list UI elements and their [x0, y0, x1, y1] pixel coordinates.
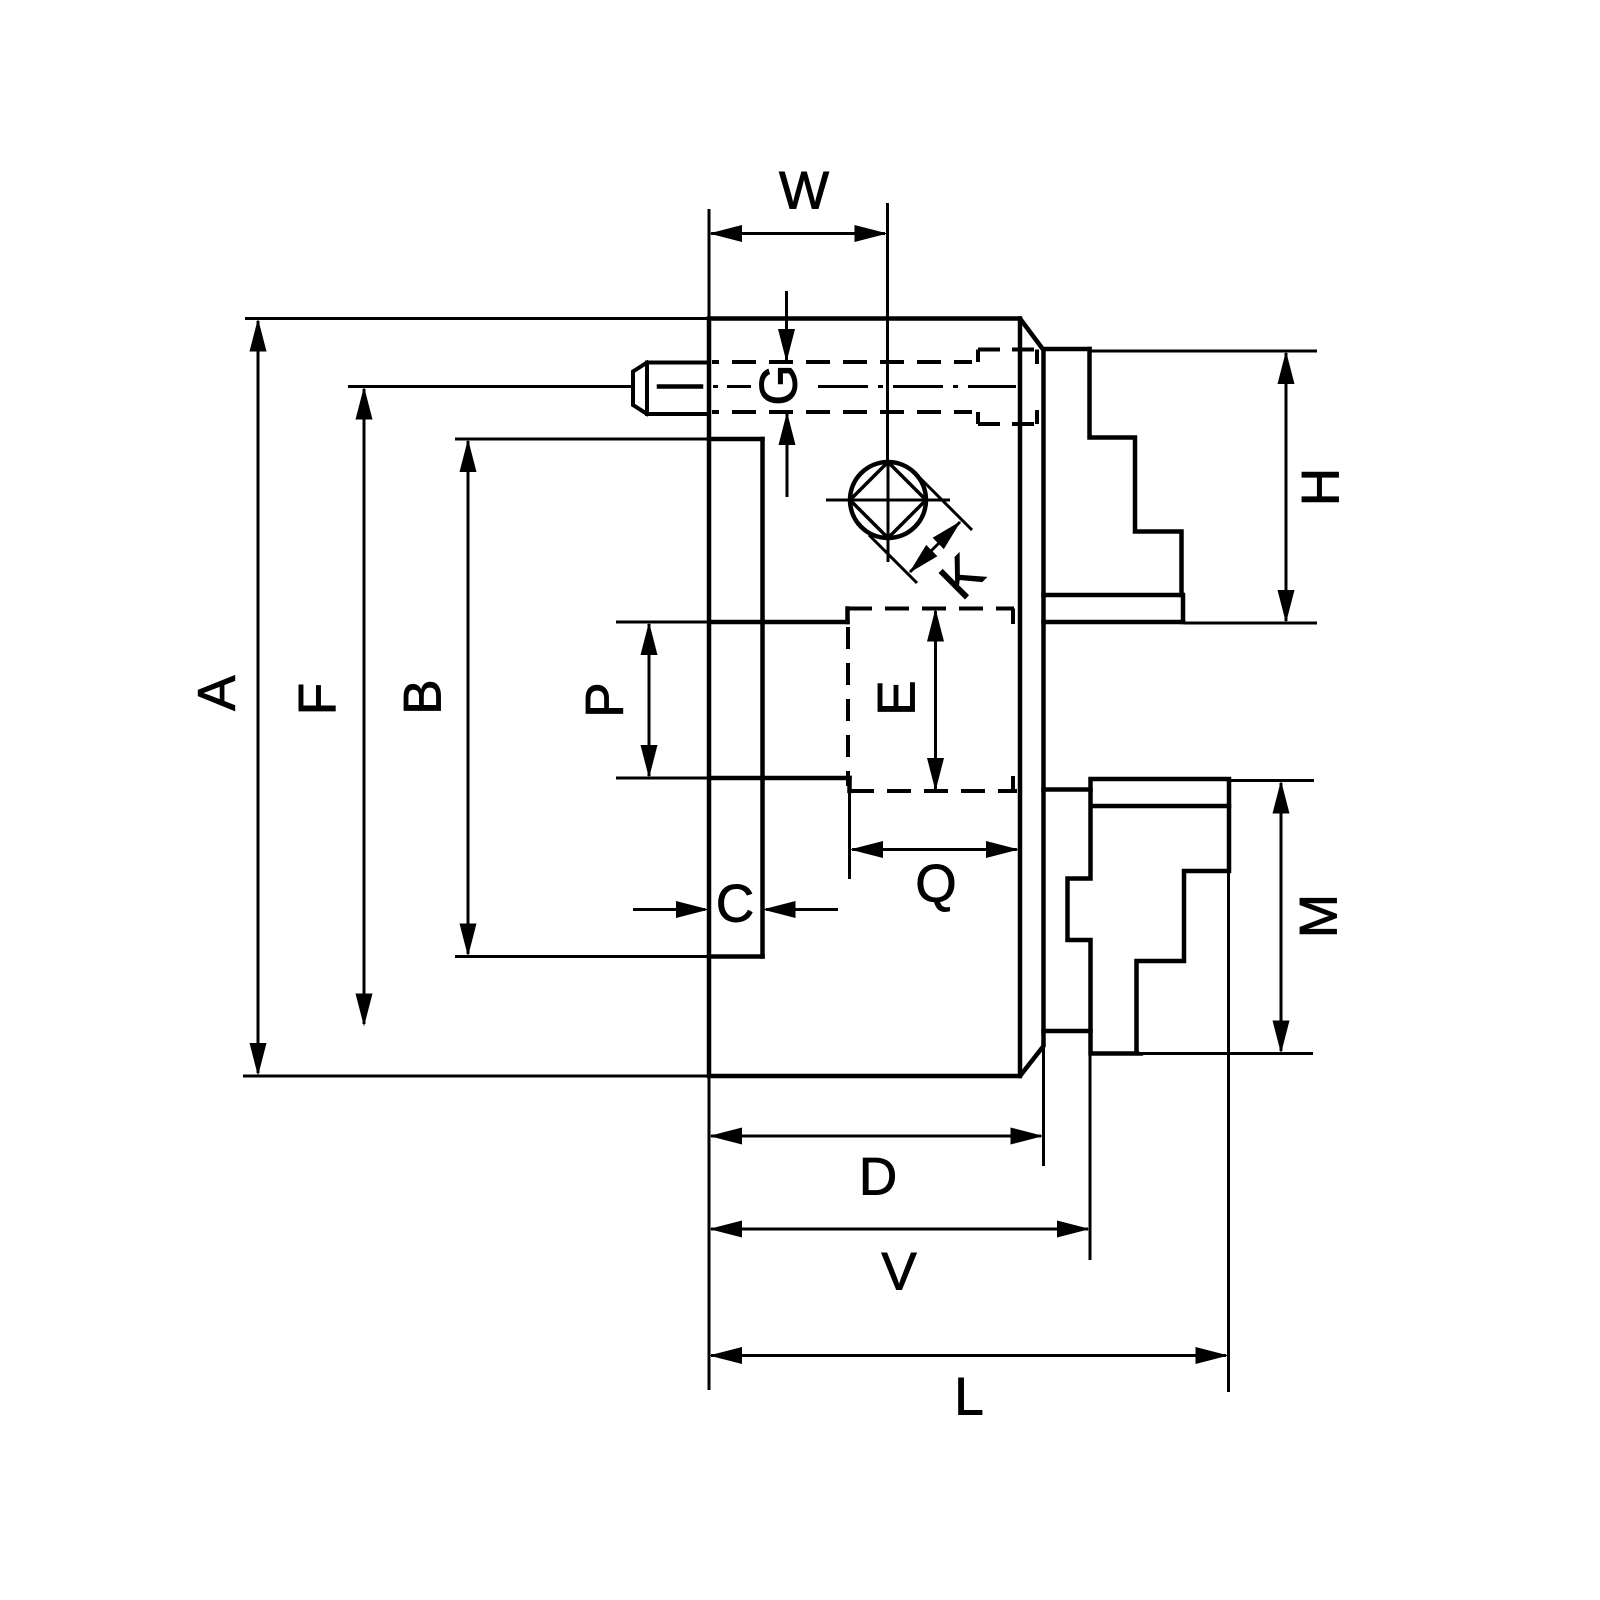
- label V: [881, 1243, 917, 1302]
- svg-text:E: E: [868, 680, 927, 715]
- centre bore back portion (diameter P): [710, 609, 850, 792]
- label F: [289, 683, 348, 715]
- label A: [188, 675, 247, 711]
- dimension F (bolt circle): [348, 387, 633, 1027]
- label H: [1292, 468, 1351, 506]
- svg-text:L: L: [954, 1368, 983, 1427]
- label Q: [915, 855, 956, 914]
- dimension D (body length): [709, 1048, 1044, 1390]
- svg-text:W: W: [779, 162, 829, 221]
- bottom jaw (stepped jaw shown reversed): [1068, 779, 1230, 1054]
- locating pin / stud on back face: [633, 363, 709, 415]
- hidden tapped hole G (dashed): [712, 350, 1037, 425]
- label E: [868, 680, 927, 715]
- dimension Q (counterbore depth): [850, 793, 1020, 879]
- dimension M (bottom jaw height): [1139, 781, 1314, 1054]
- label D: [859, 1148, 897, 1207]
- dimension H (top jaw height): [1090, 351, 1317, 623]
- label M: [1290, 894, 1349, 938]
- back register recess (diameter B, depth C): [709, 439, 763, 957]
- svg-text:G: G: [750, 364, 809, 405]
- dimension C (register depth): [633, 901, 838, 918]
- label L: [954, 1368, 983, 1427]
- guideway slot floor (bottom): [1044, 1029, 1091, 1034]
- svg-text:A: A: [188, 675, 247, 711]
- label P: [576, 682, 635, 717]
- svg-text:B: B: [394, 679, 453, 714]
- dimension W (key position): [709, 203, 888, 462]
- svg-text:H: H: [1292, 468, 1351, 506]
- svg-text:F: F: [289, 683, 348, 715]
- dimension G (thread size): [778, 291, 796, 497]
- dimension P (bore diameter): [616, 622, 710, 778]
- svg-text:D: D: [859, 1148, 897, 1207]
- dimension V (body + guide length): [709, 1055, 1090, 1260]
- svg-text:P: P: [576, 682, 635, 717]
- dimension A (outside diameter): [243, 319, 709, 1077]
- svg-text:M: M: [1290, 894, 1349, 938]
- hidden front counterbore (diameter E, dashed): [848, 609, 1017, 792]
- label B: [394, 679, 453, 714]
- dimension B (register diameter): [455, 439, 709, 957]
- dimension K (square size): [869, 478, 972, 583]
- svg-text:V: V: [881, 1243, 917, 1302]
- label C: [716, 875, 754, 934]
- top jaw (stepped reversible jaw): [1044, 349, 1182, 595]
- label W: [779, 162, 829, 221]
- svg-text:Q: Q: [915, 855, 956, 914]
- dimension L (overall length): [709, 872, 1229, 1392]
- label K: [929, 544, 996, 611]
- top master jaw strip: [1044, 595, 1184, 622]
- guideway slot edge (top of bottom slot): [1044, 787, 1091, 792]
- centre axis of pin and tapped hole (dash-dot): [713, 385, 1016, 388]
- label G: [750, 364, 809, 405]
- svg-text:C: C: [716, 875, 754, 934]
- operating key square socket: [826, 462, 950, 562]
- chuck body outline: [709, 319, 1044, 1077]
- dimension E (counterbore diameter): [927, 609, 944, 792]
